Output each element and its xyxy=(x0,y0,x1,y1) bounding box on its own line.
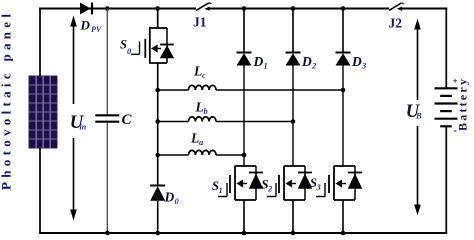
arrow U_in down arrow xyxy=(70,138,77,221)
diode D1 xyxy=(237,53,252,66)
wire D0 anode lead xyxy=(157,201,159,233)
svg-text:c: c xyxy=(202,70,206,80)
svg-text:L: L xyxy=(193,64,202,79)
label D2 xyxy=(301,54,317,71)
svg-text:in: in xyxy=(80,123,87,132)
svg-text:2: 2 xyxy=(267,184,273,194)
svg-text:D: D xyxy=(301,54,312,69)
svg-text:1: 1 xyxy=(219,185,223,195)
node junction S2 bottom xyxy=(291,231,296,236)
wire PV top lead xyxy=(39,8,41,76)
wire S2 source lead xyxy=(292,200,294,233)
battery xyxy=(435,88,458,126)
wire D2 cathode lead xyxy=(292,9,294,54)
svg-text:b: b xyxy=(204,106,208,116)
node junction top of capacitor xyxy=(105,6,110,11)
node junction top rail D3 xyxy=(341,6,346,11)
capacitor C xyxy=(95,115,119,121)
label U_B xyxy=(406,102,422,122)
node junction Lb left xyxy=(155,119,160,124)
wire node3 vertical xyxy=(342,66,344,167)
node junction top of S0 xyxy=(155,6,160,11)
label D1 xyxy=(253,54,268,71)
label Lb xyxy=(195,100,208,117)
diode D_PV xyxy=(80,3,92,15)
wire S0 gate stub xyxy=(131,42,140,55)
node junction S1 bottom xyxy=(242,231,247,236)
inductor La xyxy=(158,150,244,155)
label La xyxy=(190,131,204,148)
transistor S2 (MOSFET with body diode) xyxy=(279,166,312,200)
wire D3 cathode lead xyxy=(342,9,344,54)
svg-text:S: S xyxy=(120,38,127,52)
svg-text:J2: J2 xyxy=(389,16,403,31)
wire S3 source lead xyxy=(342,200,344,233)
svg-text:3: 3 xyxy=(316,182,322,192)
label U_in xyxy=(70,113,87,133)
svg-text:2: 2 xyxy=(311,61,317,71)
wire battery top lead xyxy=(445,8,447,88)
label Photovoltaic panel xyxy=(0,14,14,190)
svg-text:PV: PV xyxy=(91,25,102,34)
svg-text:1: 1 xyxy=(264,61,268,71)
wire top rail right segment xyxy=(402,7,448,9)
inductor Lb xyxy=(158,117,293,122)
node junction Lc right xyxy=(341,88,346,93)
label D_PV xyxy=(80,18,102,35)
diode D3 xyxy=(336,53,351,66)
node junction top rail D2 xyxy=(291,6,296,11)
wire battery bottom lead xyxy=(445,126,447,234)
wire bottom rail xyxy=(39,232,447,234)
node junction La right xyxy=(242,153,247,158)
wire S0 source lead down to inductor node xyxy=(157,63,159,185)
wire node2 vertical xyxy=(292,66,294,167)
svg-text:D: D xyxy=(351,54,362,69)
node junction bottom of capacitor xyxy=(105,231,110,236)
diode D0 xyxy=(150,186,165,201)
label S2 xyxy=(262,178,274,194)
svg-text:D: D xyxy=(164,190,175,205)
arrow U_B up arrow xyxy=(414,19,421,101)
label D0 xyxy=(164,190,180,207)
wire PV bottom lead xyxy=(39,148,41,234)
node junction S3 bottom xyxy=(341,231,346,236)
svg-text:B: B xyxy=(415,111,422,121)
switch J1 xyxy=(196,3,212,11)
wire S2 gate stub xyxy=(267,183,276,197)
node junction top rail D1 xyxy=(242,6,247,11)
svg-text:3: 3 xyxy=(361,61,367,71)
svg-text:L: L xyxy=(190,131,199,146)
diode D2 xyxy=(286,53,301,66)
svg-text:C: C xyxy=(122,112,133,128)
transistor S0 (MOSFET with body diode) xyxy=(145,28,174,63)
label S3 xyxy=(310,176,322,192)
switch J2 xyxy=(389,3,404,11)
photovoltaic panel PV module xyxy=(29,76,57,148)
svg-text:D: D xyxy=(253,54,264,69)
wire S1 gate stub xyxy=(218,183,227,197)
svg-text:L: L xyxy=(195,100,204,115)
wire S1 source lead xyxy=(243,200,245,233)
transistor S1 (MOSFET with body diode) xyxy=(230,166,263,200)
wire S0 drain lead xyxy=(157,9,159,29)
wire capacitor top lead xyxy=(106,9,108,115)
transistor S3 (MOSFET with body diode) xyxy=(329,166,362,200)
wire D1 cathode lead xyxy=(243,9,245,54)
inductor Lc xyxy=(158,85,343,90)
wire capacitor bottom lead xyxy=(106,123,108,233)
label D3 xyxy=(351,54,367,71)
wire S3 gate stub xyxy=(316,183,325,197)
label S0 xyxy=(120,38,132,57)
node junction Lb right xyxy=(291,119,296,124)
wire top rail left segment xyxy=(39,7,196,9)
label Lc xyxy=(193,64,206,81)
svg-text:D: D xyxy=(80,18,91,33)
node junction D0 bottom xyxy=(155,231,160,236)
svg-text:J1: J1 xyxy=(193,15,207,30)
arrow U_in up arrow xyxy=(70,16,77,105)
arrow U_B down arrow xyxy=(414,126,421,216)
wire top rail middle segment xyxy=(209,7,389,9)
node junction Lc left xyxy=(155,88,160,93)
wire node1 vertical xyxy=(243,66,245,167)
node junction La left xyxy=(155,153,160,158)
label S1 xyxy=(212,179,223,195)
